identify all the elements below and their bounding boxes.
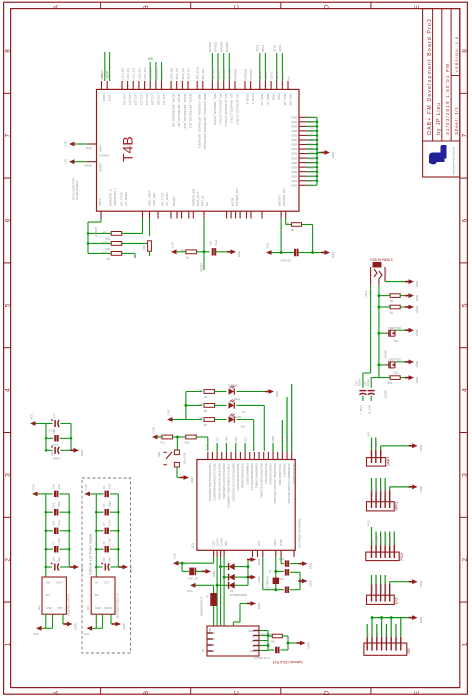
svg-text:GND: GND [249, 650, 255, 653]
wire reg4 rails [95, 494, 120, 577]
transistor TR2 [379, 326, 409, 359]
svg-text:Optional C26 & R13: Optional C26 & R13 [273, 660, 303, 664]
svg-text:GP24: GP24 [307, 134, 314, 138]
supply 3.3V arrow c8 [266, 243, 281, 255]
svg-text:IN: IN [286, 77, 290, 80]
svg-text:10K: 10K [102, 241, 107, 245]
wire GPIO_0 rail [87, 219, 101, 254]
ground GND arrow usb shield [247, 601, 261, 609]
svg-text:POWER_ON: POWER_ON [282, 188, 286, 206]
IC U1 left pin VBAT stub [87, 143, 97, 145]
wire r6 to node [311, 225, 314, 255]
wire vcc rails [45, 424, 73, 451]
capacitor C11 22pF [276, 569, 300, 580]
svg-text:3300: 3300 [198, 402, 205, 406]
ground GND arrow ic2 [64, 622, 78, 630]
svg-text:GND: GND [257, 576, 261, 582]
pin names inside left edge [84, 145, 108, 172]
connector SV2 PCM header [366, 545, 404, 561]
svg-text:I2S0: I2S0 [258, 540, 261, 546]
capacitor C18 0.1uF [46, 519, 69, 534]
svg-text:DAB+ FM Development Board Pro2: DAB+ FM Development Board Pro2 [427, 18, 433, 135]
svg-text:GPIO22: GPIO22 [222, 68, 226, 79]
supply 3.3V arrow reset [171, 242, 186, 254]
supply 3.3V arrow reg2 [32, 484, 46, 496]
svg-text:www.electronics-diy.com: www.electronics-diy.com [452, 147, 456, 175]
svg-text:EN: EN [46, 594, 50, 597]
svg-text:URX1: URX1 [278, 44, 282, 52]
ground GND arrow c8 [313, 250, 336, 258]
svg-text:GPIO_6: GPIO_6 [245, 94, 249, 105]
svg-text:GND: GND [415, 295, 419, 301]
LED D5 green [215, 384, 238, 395]
svg-text:PWM: PWM [271, 436, 275, 442]
capacitor C6 0.1uF [96, 538, 118, 553]
svg-text:ROUT: ROUT [102, 94, 106, 103]
svg-text:RESET: RESET [199, 262, 203, 272]
svg-text:2: 2 [461, 558, 468, 562]
svg-text:TR2: TR2 [393, 339, 398, 342]
svg-text:SMS_84/SDVAL_KEYB5/I2S_WCLK/GP: SMS_84/SDVAL_KEYB5/I2S_WCLK/GP2 [203, 94, 207, 150]
diode D1b esd [224, 574, 248, 581]
svg-text:SPI_DI: SPI_DI [211, 70, 215, 80]
svg-text:HST3: HST3 [85, 146, 92, 149]
resistor R3 100K [180, 249, 196, 260]
svg-text:33uF: 33uF [58, 556, 61, 562]
IC U1 bottom pin stubs [101, 211, 286, 218]
svg-text:PCMDIN: PCMDIN [383, 536, 387, 546]
IC IC1 top pin stubs [208, 452, 292, 460]
resistor R5 1K [379, 292, 409, 302]
LED D4 red RX [215, 414, 245, 429]
svg-text:GPIO24: GPIO24 [233, 68, 237, 79]
svg-text:7: 7 [461, 134, 468, 138]
svg-text:VCC: VCC [33, 632, 39, 636]
wire IC2 bottom pins [41, 614, 68, 628]
svg-text:NC/FB: NC/FB [104, 607, 112, 610]
svg-text:D+PAD: D+PAD [221, 538, 224, 546]
wire xtal cap top leg [281, 557, 284, 564]
svg-text:LCD_D6: LCD_D6 [154, 68, 158, 80]
svg-text:T4B: T4B [120, 136, 136, 162]
connector CON3 audio jack [365, 262, 388, 297]
capacitor C10 22pF [278, 557, 303, 567]
ground GND arrow right of U1 [317, 150, 335, 158]
svg-text:R_OUT: R_OUT [367, 404, 371, 414]
svg-text:SDA1: SDA1 [255, 44, 259, 52]
svg-text:3V3: 3V3 [366, 432, 370, 437]
svg-text:GND: GND [291, 179, 297, 183]
svg-text:SPI_DSA/LCD_CTRL1: SPI_DSA/LCD_CTRL1 [218, 94, 222, 125]
resistor R8 1K [379, 304, 409, 314]
svg-text:10uF: 10uF [58, 483, 61, 489]
svg-text:SDA_K0: SDA_K0 [170, 68, 174, 80]
svg-text:PL702 INDICATOR: PL702 INDICATOR [72, 178, 76, 200]
svg-text:Sheet: 1/1: Sheet: 1/1 [454, 106, 459, 135]
pin names inside IC1 top edge [208, 464, 296, 509]
svg-text:SH3: SH3 [210, 644, 215, 647]
supply VCC arrow ic2 [33, 626, 42, 636]
ground GND arrow c14 [70, 565, 84, 573]
svg-text:WS/GPIO_0: WS/GPIO_0 [108, 189, 112, 206]
net labels on right pin bus [307, 116, 314, 188]
svg-text:5: 5 [5, 303, 12, 307]
svg-text:GP32: GP32 [307, 170, 314, 174]
svg-text:ROUT: ROUT [100, 71, 104, 80]
svg-text:IN12/P03/GV07/Y212/MA4: IN12/P03/GV07/Y212/MA4 [259, 464, 263, 499]
svg-text:1K: 1K [388, 304, 391, 308]
svg-text:GND: GND [419, 581, 423, 587]
net labels GPIO top [208, 41, 229, 52]
wire xtal right leg [274, 557, 277, 591]
svg-text:E: E [414, 690, 421, 695]
title block outline [423, 9, 460, 177]
svg-text:GPIO24: GPIO24 [219, 41, 223, 52]
connector SV5 UART header [367, 450, 391, 466]
svg-text:P020/GP3: P020/GP3 [283, 464, 287, 478]
svg-text:R10: R10 [387, 381, 392, 384]
capacitor C14 33uF polarized [45, 556, 75, 571]
svg-text:GND: GND [291, 129, 297, 133]
IC U1 right side pin stubs [299, 117, 307, 185]
svg-text:GPIO8: GPIO8 [383, 487, 387, 495]
svg-text:RSENT: RSENT [384, 390, 387, 399]
svg-text:GP22: GP22 [307, 125, 314, 129]
resistor R6 4.7K [286, 221, 312, 232]
svg-text:4.7pF 2000-HU: 4.7pF 2000-HU [253, 656, 270, 659]
svg-text:RV3: RV3 [367, 520, 371, 526]
svg-text:GND: GND [419, 617, 423, 623]
svg-text:22pF: 22pF [278, 577, 284, 580]
ground GND arrow tr2 [405, 328, 419, 336]
ground GND arrow r10 [405, 375, 419, 383]
svg-text:3300: 3300 [198, 416, 205, 420]
svg-text:R12: R12 [184, 441, 189, 445]
net labels IC1 top [215, 436, 294, 442]
net labels I2C top [255, 44, 282, 52]
IC U1 left pin VDDIO stub [87, 161, 97, 163]
svg-text:R2: R2 [203, 423, 207, 427]
wire audio right channel [377, 285, 380, 378]
supply 3.3V arrow leds [167, 410, 186, 422]
svg-text:100pF: 100pF [58, 500, 61, 508]
svg-text:0.1uF: 0.1uF [109, 538, 112, 545]
svg-text:UP_RXD0: UP_RXD0 [124, 192, 128, 206]
svg-text:GPIO: GPIO [395, 502, 399, 511]
svg-text:GND: GND [415, 306, 419, 312]
svg-text:ID: ID [253, 645, 256, 648]
svg-text:SDA1: SDA1 [258, 71, 262, 79]
wire IC4 bottom pins [92, 614, 117, 628]
svg-text:MBA/PCC/CC3T0-Y40/YMC3: MBA/PCC/CC3T0-Y40/YMC3 [231, 464, 235, 502]
diode D1c esd [217, 582, 248, 589]
svg-text:RST: RST [205, 444, 209, 450]
svg-text:SPI_DIA/LCD_CTRL3: SPI_DIA/LCD_CTRL3 [230, 94, 234, 124]
IC U1 T4B body [97, 89, 300, 211]
svg-text:SW1: SW1 [157, 451, 161, 457]
resistor R16 vertical [142, 241, 151, 256]
svg-text:LCD_D1: LCD_D1 [128, 94, 132, 106]
frame row numbers 8-1 right [461, 49, 468, 647]
svg-text:GND: GND [309, 563, 313, 569]
net labels PCM pins [370, 535, 397, 546]
svg-text:SMS_11: SMS_11 [266, 94, 270, 106]
svg-text:CON3: CON3 [384, 269, 388, 277]
ground GND arrow gpio [409, 485, 423, 493]
svg-text:UTX1: UTX1 [270, 72, 274, 80]
svg-text:Y213A/MA6/RB1: Y213A/MA6/RB1 [278, 464, 282, 486]
svg-text:LCD_D6: LCD_D6 [156, 94, 160, 106]
svg-text:6: 6 [5, 218, 12, 222]
resistor R4 3300 [198, 402, 214, 413]
ground GND arrow diodes top [247, 557, 261, 565]
svg-text:3.3V: 3.3V [32, 484, 36, 490]
capacitor C16 10uF [46, 483, 69, 497]
svg-text:SCL: SCL [215, 436, 219, 442]
svg-text:GND: GND [291, 116, 297, 120]
svg-text:R16: R16 [142, 245, 146, 250]
svg-text:3.3V: 3.3V [266, 243, 270, 249]
svg-text:LCD_D3: LCD_D3 [137, 68, 141, 80]
ground GND arrow ic4 [112, 622, 126, 630]
svg-text:B: B [143, 690, 150, 695]
svg-text:R14: R14 [105, 237, 110, 241]
svg-text:EMS-P1B/Y120AT/RC4/PA2: EMS-P1B/Y120AT/RC4/PA2 [217, 464, 221, 501]
svg-text:1.2V: 1.2V [84, 484, 88, 490]
svg-text:RESET: RESET [172, 196, 176, 206]
svg-text:100K: 100K [180, 249, 187, 253]
svg-text:GREEN: GREEN [228, 384, 238, 388]
svg-text:GND: GND [257, 603, 261, 609]
ground GND arrow c20 [119, 565, 133, 573]
wire usb data lines [216, 557, 226, 626]
svg-text:GND: GND [419, 486, 423, 492]
wire ladder verticals [135, 219, 150, 259]
svg-text:GP28: GP28 [307, 152, 314, 156]
svg-text:VRTC: VRTC [98, 197, 102, 206]
svg-text:SH1: SH1 [210, 632, 215, 635]
ground GND arrow c26 [297, 641, 311, 649]
svg-text:LCD_D5: LCD_D5 [151, 94, 155, 106]
wire pcm pin wires [372, 527, 395, 545]
connector SV4 I2S header [364, 637, 411, 655]
capacitor C19 0.1uF [208, 239, 218, 256]
svg-text:I2S: I2S [407, 648, 411, 654]
svg-text:C8 0.1uF: C8 0.1uF [187, 577, 198, 580]
svg-text:IC1: IC1 [191, 543, 195, 548]
capacitor C20 33uF polarized [95, 556, 123, 571]
svg-text:SMS_10: SMS_10 [260, 94, 264, 106]
ground GND arrow uart [409, 443, 423, 451]
svg-text:B: B [143, 5, 150, 10]
svg-text:BOOTN: BOOTN [278, 195, 282, 206]
svg-text:VBUS: VBUS [248, 630, 255, 633]
svg-text:SP0503BAHT: SP0503BAHT [229, 593, 247, 597]
svg-text:DATA: DATA [385, 632, 389, 639]
svg-text:8: 8 [461, 49, 468, 53]
svg-text:GND: GND [291, 143, 297, 147]
inductor L1 [201, 585, 217, 626]
svg-text:0.1uF: 0.1uF [109, 519, 112, 526]
svg-text:Optional 1.2V Power Supply: Optional 1.2V Power Supply [89, 533, 93, 575]
svg-text:LCD_D4: LCD_D4 [145, 94, 149, 106]
svg-text:GPIO_0: GPIO_0 [94, 227, 98, 237]
svg-text:SDA: SDA [225, 436, 229, 442]
svg-text:5: 5 [461, 303, 468, 307]
svg-text:A: A [53, 5, 60, 10]
svg-text:I/O: I/O [290, 439, 294, 442]
svg-text:SWCLK: SWCLK [379, 584, 383, 593]
svg-text:R7: R7 [203, 395, 207, 399]
svg-text:LCD_D1: LCD_D1 [126, 68, 130, 80]
ground GND arrow ext [409, 579, 423, 587]
resistor R13 1M [260, 633, 288, 643]
wire net ROUT LOUT stubs tall [105, 52, 110, 81]
ground GND arrow i2s [409, 615, 423, 623]
capacitor C8 0.1uF [280, 249, 313, 263]
svg-text:3SL/L2502: 3SL/L2502 [388, 326, 401, 330]
svg-text:GND: GND [415, 377, 419, 383]
svg-text:C20: C20 [103, 557, 106, 562]
svg-text:GPIO7: GPIO7 [379, 487, 383, 495]
svg-text:BOTN: BOTN [230, 198, 234, 206]
svg-text:UART: UART [387, 457, 391, 466]
svg-text:1: 1 [5, 642, 12, 646]
wire xtal left leg [263, 557, 276, 590]
pin labels above top pins [100, 67, 291, 79]
wire usb right pins [259, 631, 270, 651]
IC U1 top pin stubs [102, 81, 289, 89]
svg-text:GND: GND [275, 391, 279, 397]
svg-text:VBB: VBB [225, 541, 228, 546]
svg-text:SDVAL_KEYB1/LCD_D9: SDVAL_KEYB1/LCD_D9 [177, 94, 181, 128]
svg-text:1M-1/16W: 1M-1/16W [260, 633, 272, 636]
supply VCC arrow decoupling [30, 414, 46, 426]
svg-text:SCLK: SCLK [366, 632, 370, 639]
svg-text:PCMCLK: PCMCLK [374, 535, 378, 546]
svg-text:R15: R15 [105, 247, 110, 251]
svg-text:UTX: UTX [243, 437, 247, 442]
svg-text:GND: GND [415, 281, 419, 287]
frame column letters A-E bottom [53, 690, 421, 695]
svg-text:C14: C14 [53, 557, 56, 562]
svg-text:GP23: GP23 [307, 129, 314, 133]
svg-text:C: C [233, 690, 240, 695]
svg-text:3300: 3300 [198, 388, 205, 392]
svg-text:GPIO25: GPIO25 [225, 41, 229, 52]
svg-text:VCC: VCC [187, 589, 193, 593]
svg-text:TX: TX [242, 410, 246, 414]
svg-text:3.3V: 3.3V [173, 553, 177, 559]
svg-text:GP25: GP25 [307, 138, 314, 142]
svg-text:D-: D- [252, 635, 255, 638]
svg-text:PWR: PWR [234, 397, 240, 401]
svg-text:GND: GND [291, 156, 297, 160]
svg-text:RSENT: RSENT [384, 350, 387, 359]
capacitor C7 0.1uF [46, 538, 69, 553]
svg-text:1.2V: 1.2V [64, 159, 68, 165]
svg-text:D: D [324, 5, 331, 10]
wire led3 to pin [237, 420, 254, 452]
capacitor C18b 0.1uF [187, 568, 206, 580]
svg-text:I2S: I2S [148, 57, 153, 61]
svg-text:R3: R3 [185, 255, 189, 259]
svg-text:PCM: PCM [400, 553, 404, 561]
svg-text:GND: GND [95, 607, 101, 610]
svg-text:GND: GND [212, 571, 216, 577]
svg-text:C23: C23 [51, 451, 54, 456]
svg-text:10K: 10K [158, 434, 163, 438]
svg-text:3.3V: 3.3V [167, 410, 171, 416]
svg-text:SDA_K1: SDA_K1 [175, 68, 179, 80]
wire led rail [184, 392, 202, 420]
svg-text:R6: R6 [290, 228, 294, 232]
svg-text:DBC2: DBC2 [274, 539, 277, 546]
svg-text:0.1uF: 0.1uF [51, 443, 58, 446]
svg-text:OUT: OUT [104, 582, 110, 585]
wire ic1 3v3 node [181, 557, 214, 571]
svg-text:GND: GND [46, 607, 52, 610]
svg-text:URX1: URX1 [275, 71, 279, 79]
svg-text:GP35: GP35 [307, 183, 314, 187]
svg-text:BCLK: BCLK [375, 632, 379, 639]
svg-text:VCC: VCC [83, 632, 89, 636]
svg-text:URX: URX [234, 436, 238, 442]
svg-text:LCD_D0: LCD_D0 [122, 94, 126, 106]
svg-text:IRT1/A007/CB2: IRT1/A007/CB2 [264, 464, 268, 485]
svg-text:BYP: BYP [58, 607, 63, 610]
svg-text:OSC_32KA: OSC_32KA [147, 190, 151, 206]
svg-text:SH4: SH4 [210, 650, 215, 653]
svg-text:by JP Lieu: by JP Lieu [436, 102, 442, 135]
svg-text:0.1uF: 0.1uF [58, 538, 61, 545]
net labels GPIO pins [370, 487, 388, 495]
svg-text:GND: GND [291, 170, 297, 174]
ground GND arrow reset [215, 249, 241, 257]
svg-text:LCD_D2: LCD_D2 [134, 94, 138, 106]
svg-text:SDVAL_KEYB3/LCD_D11: SDVAL_KEYB3/LCD_D11 [188, 94, 192, 129]
svg-text:R13: R13 [270, 640, 275, 643]
svg-text:PWRUP_EN: PWRUP_EN [191, 189, 195, 206]
supply 1.2V arrow left lower [64, 159, 87, 165]
svg-text:D: D [324, 690, 331, 695]
svg-text:P21B/Y214/RA6: P21B/Y214/RA6 [269, 464, 273, 485]
svg-text:6: 6 [461, 218, 468, 222]
svg-text:4: 4 [461, 388, 468, 392]
wire i2s pin wires [367, 616, 409, 637]
supply 1.2V arrow [84, 484, 96, 496]
svg-text:GP26: GP26 [307, 143, 314, 147]
capacitor C5 0.1uF [96, 519, 118, 534]
svg-text:BUTTON: BUTTON [183, 453, 187, 464]
svg-text:SDVAL_KEYB0/LCD_D8: SDVAL_KEYB0/LCD_D8 [172, 94, 176, 128]
frame row numbers 8-1 left [5, 49, 12, 647]
wire IC1 top pin wires [217, 384, 292, 452]
svg-text:INT8/VREF+/CC230-YMA/RC1: INT8/VREF+/CC230-YMA/RC1 [273, 464, 277, 504]
svg-text:VIN: VIN [46, 582, 50, 585]
svg-text:VDDIO: VDDIO [99, 162, 103, 172]
svg-text:8: 8 [5, 49, 12, 53]
transistor TR1 [379, 358, 409, 374]
svg-text:WS: WS [394, 635, 398, 639]
supply 3.3V arrow left upper [64, 141, 87, 147]
svg-text:2: 2 [5, 558, 12, 562]
svg-text:100pF: 100pF [109, 500, 112, 508]
supply 3.3V arrow button [152, 427, 162, 439]
svg-text:PCMFS: PCMFS [379, 537, 383, 546]
svg-text:P00/PCC/CC3T0-M40/RB3: P00/PCC/CC3T0-M40/RB3 [222, 464, 226, 499]
svg-text:3.5MM AUDIO: 3.5MM AUDIO [370, 258, 393, 262]
